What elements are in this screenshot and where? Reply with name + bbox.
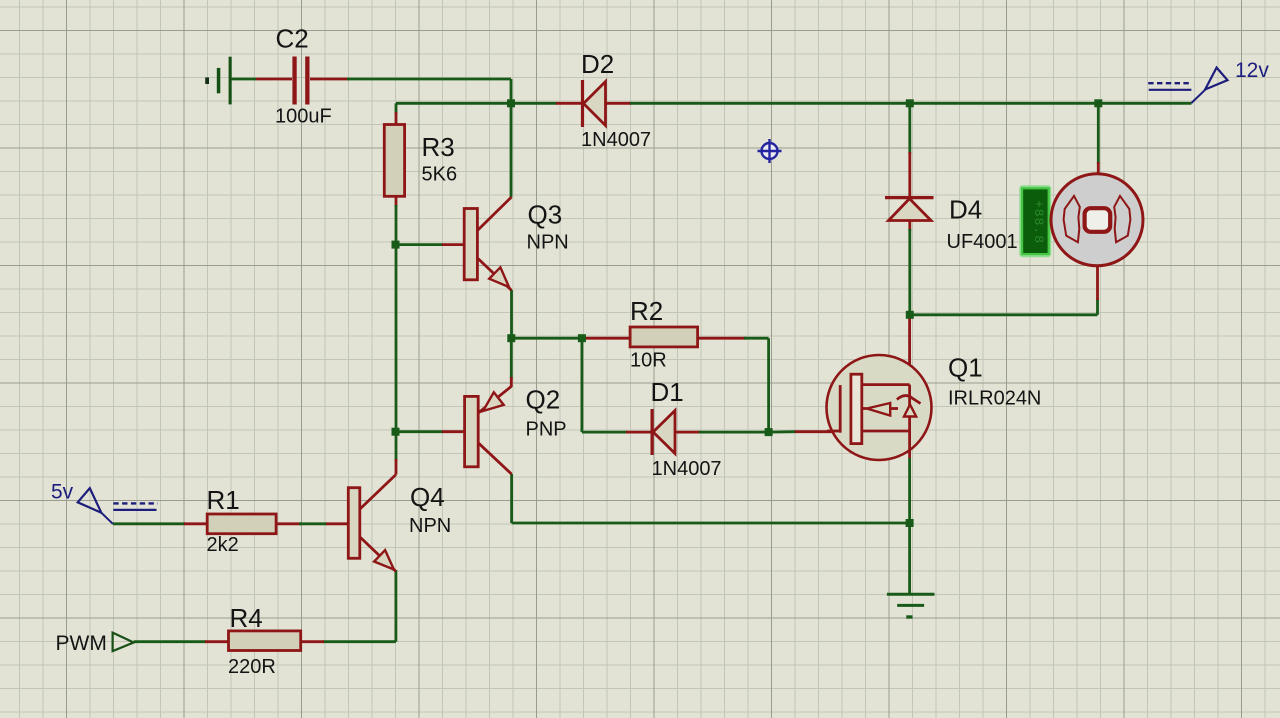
wire battery to C2 [231,78,292,81]
label Q1 [948,353,983,383]
svg-text:100uF: 100uF [275,106,332,128]
transistor Q3 emitter [477,258,511,290]
label C2 [276,24,309,54]
wire Q3 emitter vertical [510,290,513,338]
svg-text:IRLR024N: IRLR024N [948,388,1041,410]
mosfet Q1 [827,355,932,460]
wire 5v to R1 [113,522,208,525]
diode D4 [885,198,934,221]
value 100uF [275,106,332,128]
wire R2 right pin [698,338,769,432]
svg-text:PNP: PNP [526,419,567,441]
label Q3 [528,200,563,230]
svg-text:PWM: PWM [56,632,107,655]
node rail-D4 junction [906,99,914,107]
svg-text:R4: R4 [230,603,263,633]
resistor R2 body [630,327,698,347]
resistor R3 body [384,125,404,197]
wire rail row103 junction to D2 [511,102,582,105]
origin marker [758,139,782,163]
diode D2 [583,80,606,127]
wire R1 to Q4 base [276,522,348,525]
svg-text:C2: C2 [276,24,309,54]
terminal 5v [78,488,158,524]
wire Q1 gate [769,430,840,433]
wire D4 top pin [908,103,911,197]
label R3 [422,132,455,162]
capacitor C2 plates [292,57,309,105]
node Q2 base junction [392,428,400,436]
wire R3 top pin [395,103,398,125]
value 1N4007 (D1) [652,458,722,480]
wire Q3 base [396,243,465,246]
wire Q2 base [396,430,466,433]
wire R3 bottom / left vertical [395,196,398,475]
svg-text:Q4: Q4 [410,482,445,512]
svg-text:R2: R2 [630,296,663,326]
label D4 [949,195,982,225]
wire row314 to motor [910,267,1098,315]
transistor Q3 base bar [464,209,477,280]
transistor Q3 collector [477,197,511,231]
wire D4 bottom pin [908,221,911,315]
rpm display [1021,187,1051,257]
node D4 bottom junction [906,311,914,319]
transistor Q4 emitter diag [360,537,396,572]
svg-text:12v: 12v [1235,59,1269,82]
wire x582 vertical to D1 row [582,338,652,432]
resistor R4 body [229,631,301,651]
wire Q2 collector vertical and bottom rail [512,474,910,523]
node rail-motor junction [1094,99,1102,107]
wire PWM to R4 [134,640,229,643]
svg-text:2k2: 2k2 [207,534,239,556]
wire motor top pin [1097,103,1100,174]
node bottom rail junction [906,519,914,527]
svg-text:D4: D4 [949,195,982,225]
svg-text:NPN: NPN [409,515,451,537]
label 5v [51,481,74,504]
node main junction 510,103 [507,99,515,107]
value NPN (Q3) [527,232,569,254]
svg-text:5K6: 5K6 [422,164,458,186]
label 12v [1235,59,1269,82]
transistor Q2 collector diag [478,443,511,474]
label Q4 [410,482,445,512]
wire Q2 emitter vertical [510,338,513,387]
wire ground stem [908,523,911,594]
label R1 [207,485,240,515]
svg-text:NPN: NPN [527,232,569,254]
node row338 R2 junction [578,334,586,342]
value PNP (Q2) [526,419,567,441]
label D1 [651,377,684,407]
svg-text:R3: R3 [422,132,455,162]
node row338 left junction [507,334,515,342]
terminal 12v [1148,68,1227,103]
transistor Q4 emitter arrow [374,550,394,569]
wire D1 right pin [674,431,769,434]
transistor Q2 base bar [465,396,479,466]
svg-text:1N4007: 1N4007 [581,129,651,151]
wire Q4 emitter vertical [301,570,396,642]
ground [887,594,935,617]
node R3-Q3 base junction [392,241,400,249]
transistor Q4 collector diag [360,475,396,510]
wire C2 to top corner [310,79,511,103]
value NPN (Q4) [409,515,451,537]
motor [1051,174,1143,266]
wire Q1 drain vertical [908,316,911,384]
value UF4001 [947,231,1018,253]
value 2k2 [207,534,239,556]
wire Q3 collector vertical [510,103,513,197]
label PWM [56,632,107,655]
label R2 [630,296,663,326]
wire rail row103 left to R3 [396,102,511,105]
svg-text:Q2: Q2 [526,385,561,415]
transistor Q2 emitter arrow [483,392,504,411]
label R4 [230,603,263,633]
terminal PWM [113,633,134,652]
svg-text:R1: R1 [207,485,240,515]
value 220R [228,656,276,678]
svg-text:1N4007: 1N4007 [652,458,722,480]
svg-text:D1: D1 [651,377,684,407]
svg-text:Q1: Q1 [948,353,983,383]
wire D2 cathode-right rail to 12v [605,102,1192,105]
svg-text:+88.8: +88.8 [1031,200,1046,244]
transistor Q4 base bar [348,488,360,559]
svg-text:UF4001: UF4001 [947,231,1018,253]
svg-text:220R: 220R [228,656,276,678]
value 5K6 [422,164,458,186]
node D1-R2-gate junction [765,428,773,436]
resistor R1 body [207,514,276,534]
svg-text:D2: D2 [581,49,614,79]
power terminal bars (left) [205,57,232,105]
transistor Q2 emitter diag [478,386,511,413]
svg-text:10R: 10R [630,350,667,372]
svg-text:Q3: Q3 [528,200,563,230]
label D2 [581,49,614,79]
svg-text:5v: 5v [51,481,74,504]
value 10R [630,350,667,372]
transistor Q3 emitter arrow [489,267,509,287]
wire row338 to R2 [511,337,630,340]
label Q2 [526,385,561,415]
value IRLR024N [948,388,1041,410]
wire Q1 source vertical [908,458,911,523]
diode D1 [652,409,675,455]
value 1N4007 (D2) [581,129,651,151]
